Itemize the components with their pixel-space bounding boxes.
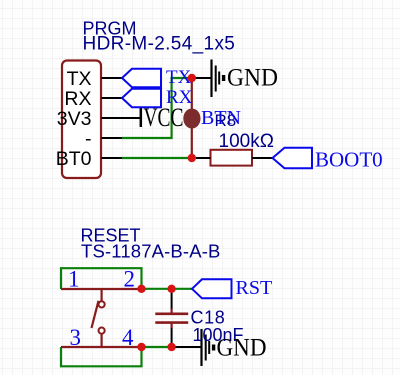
svg-text:BT0: BT0 [56,148,92,170]
svg-text:RX: RX [64,88,91,110]
svg-text:TX: TX [67,68,92,90]
svg-text:1: 1 [68,267,80,292]
svg-text:VCC: VCC [144,103,184,132]
svg-text:HDR-M-2.54_1x5: HDR-M-2.54_1x5 [83,34,236,55]
svg-text:4: 4 [122,325,134,350]
svg-text:3: 3 [70,325,82,350]
svg-text:RST: RST [236,277,273,299]
svg-text:BOOT0: BOOT0 [315,148,383,172]
svg-text:GND: GND [217,335,267,362]
svg-text:-: - [85,128,92,150]
svg-text:BTN: BTN [201,107,241,129]
svg-text:TS-1187A-B-A-B: TS-1187A-B-A-B [81,241,221,262]
svg-text:100kΩ: 100kΩ [219,131,274,152]
svg-text:2: 2 [124,267,136,292]
svg-text:3V3: 3V3 [57,108,92,130]
svg-text:TX: TX [166,67,192,88]
svg-text:GND: GND [227,65,278,92]
